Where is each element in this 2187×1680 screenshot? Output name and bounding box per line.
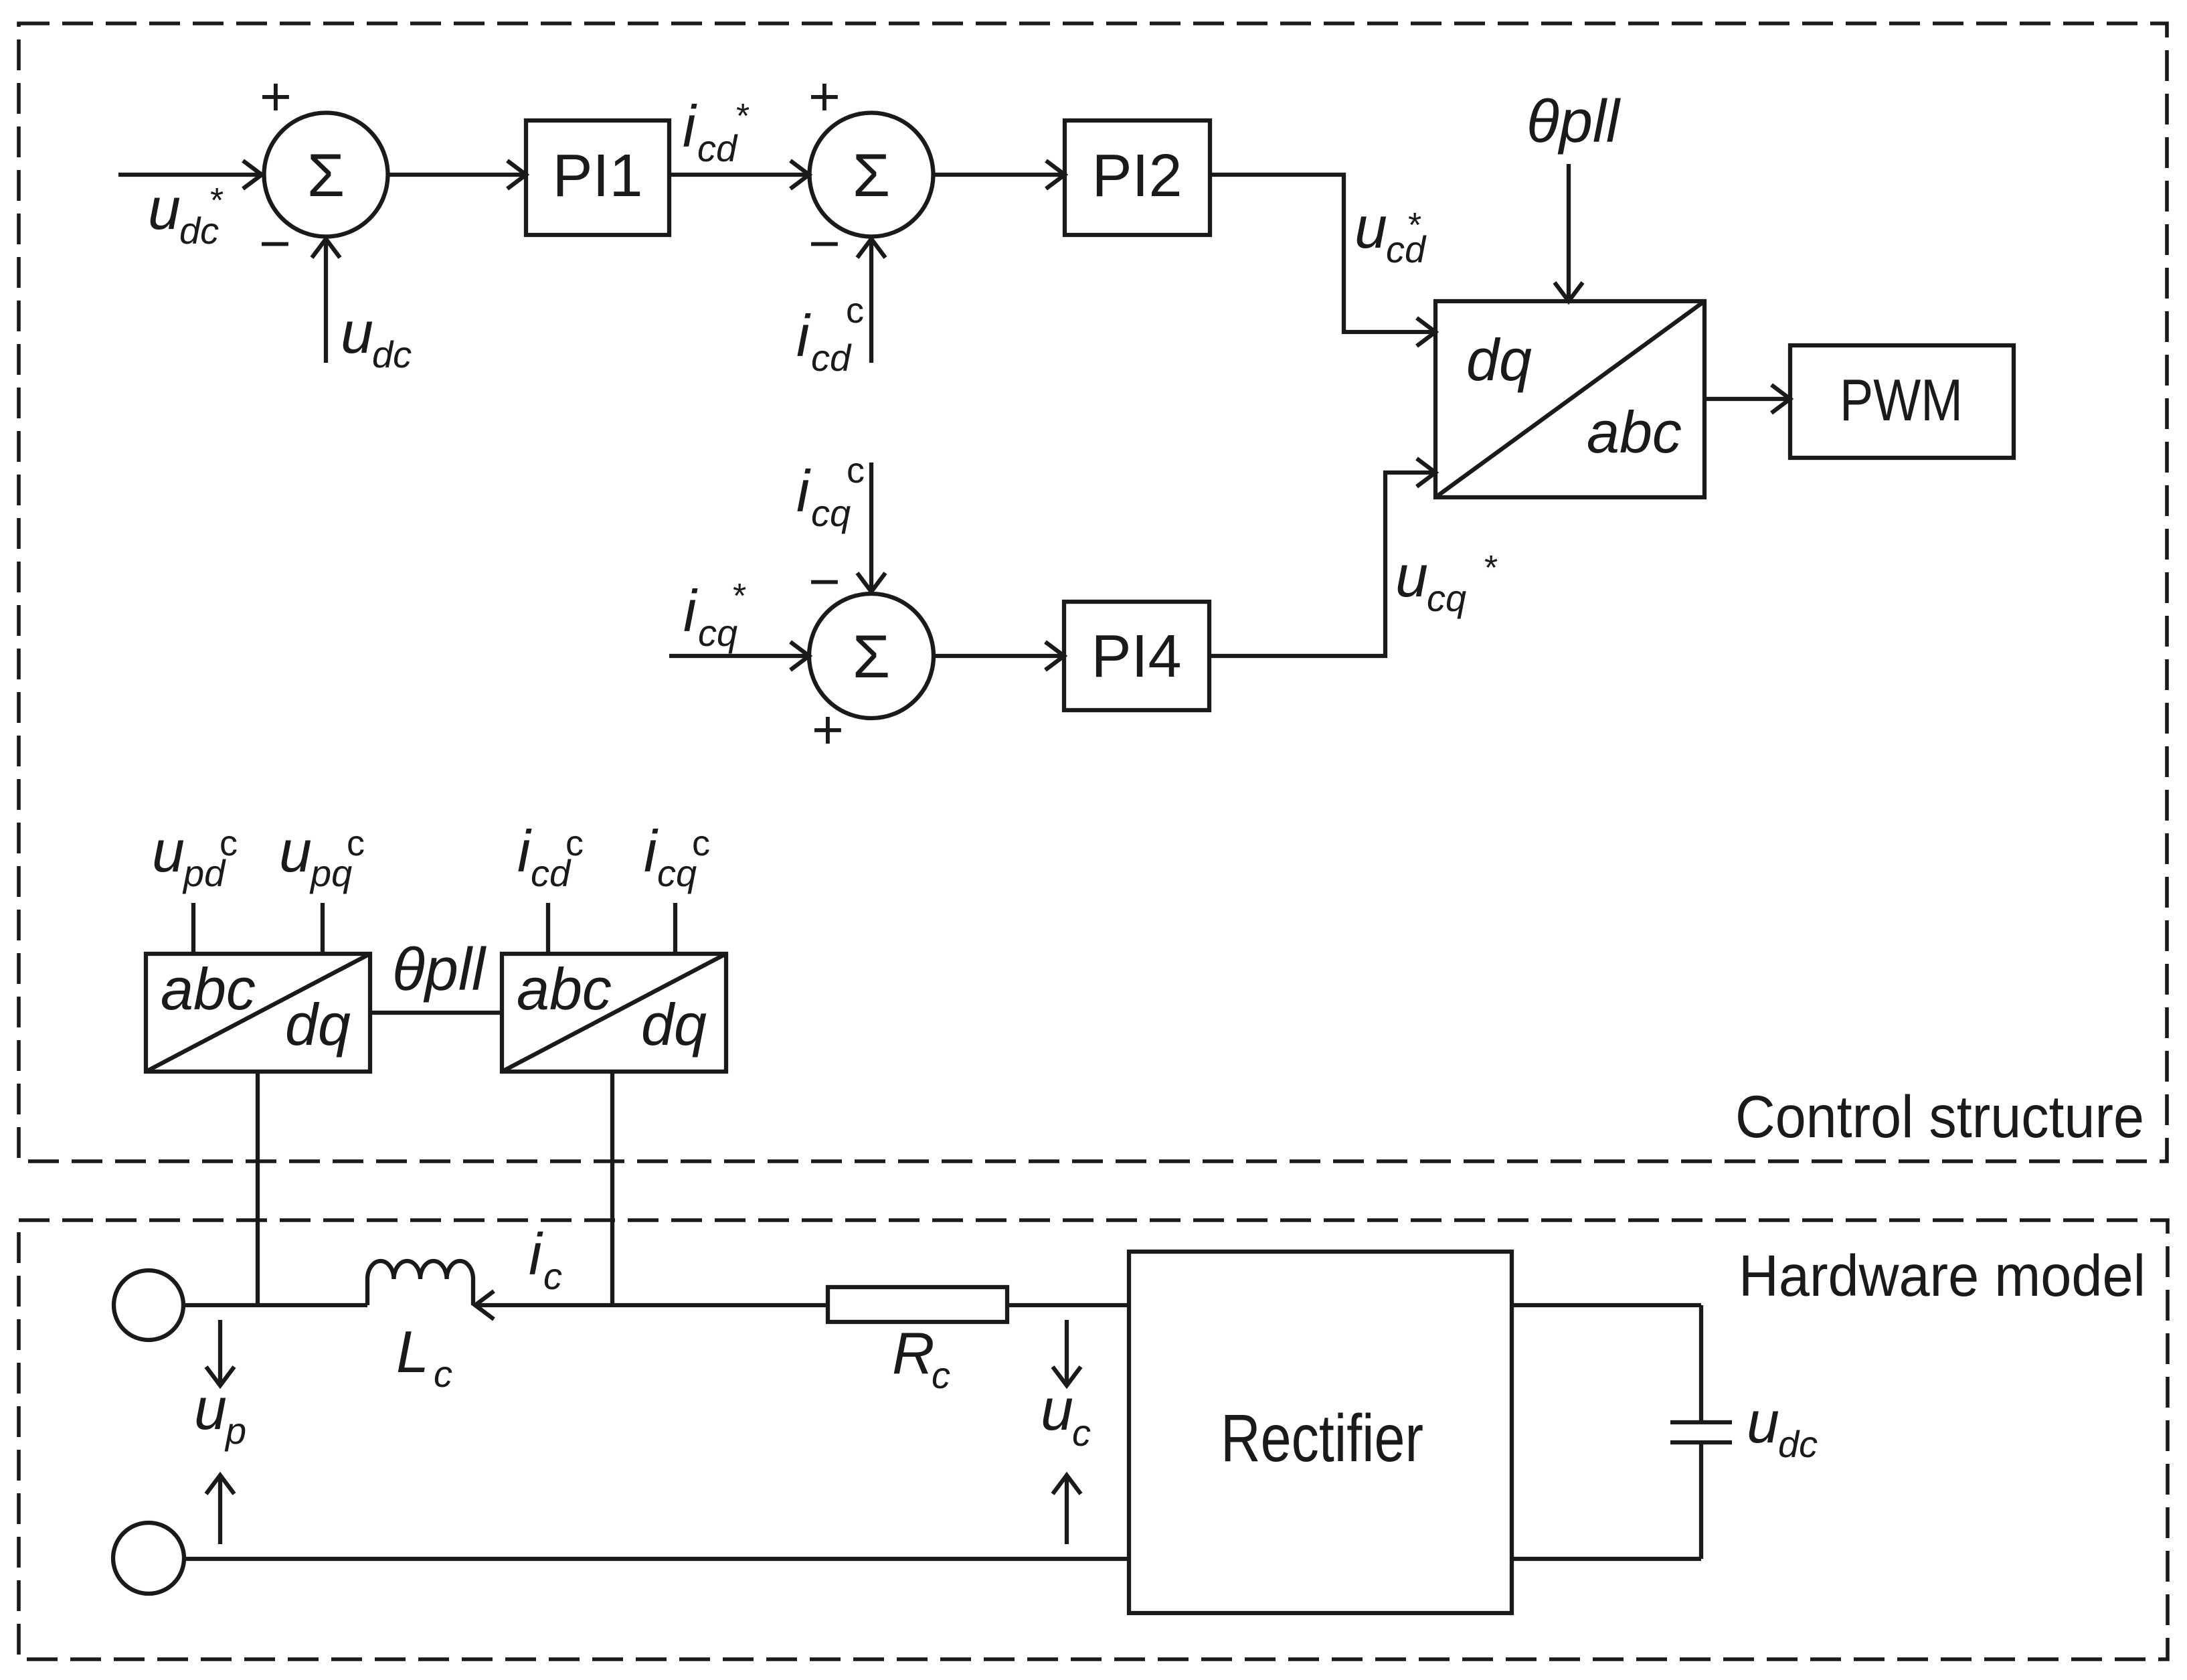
svg-text:*: * <box>1484 549 1498 588</box>
svg-text:Σ: Σ <box>853 623 890 691</box>
svg-text:i: i <box>796 458 811 524</box>
svg-text:L: L <box>396 1319 429 1385</box>
svg-text:dc: dc <box>1778 1423 1818 1465</box>
svg-text:+: + <box>812 699 844 760</box>
svg-text:cd: cd <box>697 127 738 169</box>
svg-text:abc: abc <box>517 956 612 1022</box>
svg-text:−: − <box>808 552 841 612</box>
svg-text:−: − <box>808 214 841 274</box>
svg-text:c: c <box>347 823 365 863</box>
svg-text:c: c <box>565 823 584 863</box>
svg-text:i: i <box>644 818 659 884</box>
svg-text:i: i <box>683 93 697 159</box>
svg-text:i: i <box>529 1221 543 1287</box>
svg-text:PI1: PI1 <box>552 143 642 209</box>
svg-text:u: u <box>1041 1376 1073 1442</box>
svg-text:cq: cq <box>1427 577 1466 619</box>
svg-text:−: − <box>259 214 291 274</box>
svg-text:pq: pq <box>309 852 352 894</box>
svg-text:cd: cd <box>811 337 852 379</box>
svg-text:u: u <box>1354 194 1387 260</box>
svg-text:PWM: PWM <box>1840 367 1963 433</box>
svg-text:u: u <box>1395 543 1428 609</box>
svg-text:u: u <box>194 1375 227 1442</box>
svg-text:cq: cq <box>657 852 697 894</box>
svg-text:i: i <box>683 578 698 644</box>
svg-text:c: c <box>434 1353 452 1395</box>
svg-text:c: c <box>847 450 865 491</box>
svg-text:*: * <box>733 577 746 616</box>
svg-text:θpll: θpll <box>1526 88 1622 155</box>
svg-text:+: + <box>260 66 292 127</box>
svg-text:c: c <box>1072 1412 1091 1454</box>
svg-text:p: p <box>224 1410 246 1452</box>
svg-text:abc: abc <box>1587 399 1682 465</box>
svg-text:PI4: PI4 <box>1091 623 1181 690</box>
svg-text:dq: dq <box>285 991 351 1058</box>
svg-text:i: i <box>517 818 532 884</box>
svg-text:cq: cq <box>811 492 851 534</box>
svg-text:c: c <box>846 290 864 331</box>
svg-text:u: u <box>279 818 312 884</box>
svg-text:+: + <box>808 66 841 127</box>
svg-text:u: u <box>341 299 373 365</box>
svg-text:*: * <box>736 97 750 136</box>
svg-text:dq: dq <box>641 991 707 1058</box>
svg-text:Rectifier: Rectifier <box>1221 1401 1423 1476</box>
svg-text:c: c <box>220 823 238 863</box>
svg-text:dc: dc <box>372 333 412 375</box>
svg-text:dq: dq <box>1466 327 1532 393</box>
svg-text:PI2: PI2 <box>1091 143 1182 209</box>
svg-text:abc: abc <box>161 956 256 1022</box>
svg-text:u: u <box>152 818 185 884</box>
svg-text:R: R <box>892 1320 935 1386</box>
svg-text:c: c <box>692 823 710 863</box>
svg-text:*: * <box>210 181 224 220</box>
svg-text:u: u <box>1747 1389 1779 1455</box>
svg-text:Hardware model: Hardware model <box>1739 1244 2146 1309</box>
svg-text:i: i <box>796 303 811 369</box>
svg-text:c: c <box>543 1255 562 1297</box>
svg-text:Σ: Σ <box>853 142 890 209</box>
svg-text:Σ: Σ <box>307 142 345 209</box>
svg-text:c: c <box>932 1354 950 1396</box>
svg-text:θpll: θpll <box>392 936 487 1003</box>
svg-text:u: u <box>148 175 181 242</box>
svg-text:Control structure: Control structure <box>1735 1083 2144 1150</box>
svg-text:cq: cq <box>698 612 737 654</box>
svg-text:*: * <box>1408 206 1421 245</box>
